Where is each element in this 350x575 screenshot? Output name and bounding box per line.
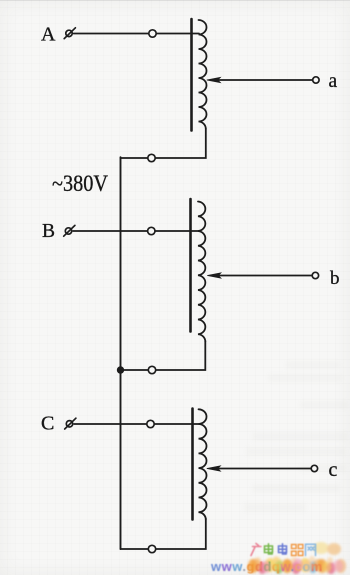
wire phase A <box>74 33 200 35</box>
terminal c <box>311 465 317 471</box>
svg-text:~380V: ~380V <box>52 171 108 196</box>
svg-text:a: a <box>329 71 338 92</box>
label b <box>330 268 340 289</box>
svg-text:B: B <box>42 221 55 242</box>
bus wire <box>120 157 122 549</box>
connector circle on phase C wire <box>147 420 154 427</box>
watermark logo <box>210 542 346 574</box>
junction dot on bus <box>117 366 124 373</box>
transformer T1 winding <box>199 20 207 129</box>
transformer T2 core <box>189 199 192 332</box>
transformer T1 core <box>190 19 193 131</box>
label c <box>329 459 338 481</box>
svg-text:C: C <box>41 413 54 435</box>
connector circle on T3 bottom wire <box>148 545 155 552</box>
wire T2 bottom to bus <box>121 341 206 370</box>
transformer T2 winding <box>198 202 205 342</box>
wire phase B <box>73 230 199 232</box>
label C <box>41 413 54 435</box>
terminal A <box>64 28 75 39</box>
connector circle on phase A wire <box>149 30 156 37</box>
connector circle on T2 bottom wire <box>148 366 155 373</box>
terminal a <box>313 77 319 83</box>
terminal B <box>64 225 75 236</box>
label A <box>41 24 56 46</box>
transformer T3 winding <box>199 409 207 519</box>
wire T1 bottom to bus <box>121 129 206 158</box>
svg-text:b: b <box>330 268 340 289</box>
transformer T3 core <box>191 409 194 520</box>
wiper arrow tap a <box>207 77 313 82</box>
label a <box>329 71 338 92</box>
connector circle on T1 bottom wire <box>148 154 155 161</box>
wiper arrow tap c <box>207 466 311 471</box>
wire T3 bottom to bus <box>121 519 206 550</box>
page bleed-through <box>244 361 348 512</box>
wire phase C <box>74 423 199 425</box>
svg-text:c: c <box>329 459 338 481</box>
label B <box>42 221 55 242</box>
connector circle on phase B wire <box>148 227 155 234</box>
terminal b <box>312 272 318 278</box>
svg-text:A: A <box>41 24 56 46</box>
label ~380V <box>52 171 108 196</box>
terminal C <box>65 418 76 429</box>
wiper arrow tap b <box>207 273 312 278</box>
